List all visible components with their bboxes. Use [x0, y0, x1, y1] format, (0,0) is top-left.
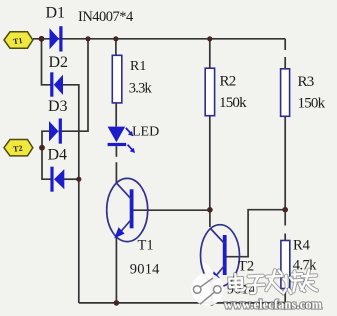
wire minus column down [78, 179, 80, 303]
wire R1 top lead [115, 39, 117, 56]
wire R4 bottom lead [284, 289, 286, 303]
wire T1-node vertical to D2 [42, 39, 51, 85]
svg-text:D1: D1 [46, 5, 66, 22]
svg-text:R4: R4 [293, 238, 311, 254]
svg-text:IN4007*4: IN4007*4 [78, 9, 134, 25]
svg-text:T2: T2 [238, 259, 254, 275]
junction node T2 emitter on rail [209, 300, 215, 306]
junction node T1 terminal [39, 36, 45, 42]
junction node bridge minus [76, 177, 81, 182]
svg-text:R1: R1 [130, 59, 146, 74]
junction node T1 emitter on rail [114, 300, 120, 306]
transistor T2 emitter arrow [209, 271, 219, 282]
svg-text:LED: LED [132, 125, 159, 140]
diode D2 [50, 72, 53, 96]
terminal T2 [4, 140, 33, 156]
wire T2 collector lead [209, 210, 211, 227]
svg-text:R3: R3 [298, 74, 314, 90]
watermark logo circle [191, 262, 223, 306]
svg-text:T1: T1 [13, 36, 24, 46]
diode D4 [50, 167, 53, 192]
LED arrow 2 [128, 145, 134, 151]
wire node B to T2 base [227, 210, 286, 257]
transistor T2 base bar [223, 235, 227, 275]
transistor T1 ellipse [107, 178, 148, 241]
junction node R1 top [113, 36, 118, 41]
wire R2 bottom lead [209, 116, 211, 210]
diode D1 [50, 28, 60, 49]
resistor R4 [281, 241, 290, 289]
svg-text:9014: 9014 [130, 262, 160, 278]
wire top rail [33, 38, 285, 40]
wire T2 emitter lead [211, 281, 213, 303]
svg-text:T2: T2 [13, 144, 24, 154]
wire R2 top lead [209, 39, 211, 68]
LED [108, 127, 126, 143]
wire T1 base to node A [133, 209, 210, 211]
transistor T2 collector diagonal [210, 228, 225, 244]
transistor T2 ellipse [201, 225, 240, 287]
svg-text:R2: R2 [220, 74, 236, 90]
svg-text:T1: T1 [138, 238, 154, 254]
watermark hanzi dian [229, 268, 317, 295]
wire R4 top lead [284, 210, 286, 241]
wire D4 anode to minus node [64, 178, 79, 180]
wire bottom rail [79, 302, 285, 304]
svg-text:www.elecfans.com: www.elecfans.com [224, 298, 322, 312]
junction node D3 cathode rail [85, 36, 90, 41]
diode D3 [49, 121, 58, 142]
transistor T1 collector diagonal [117, 183, 132, 199]
resistor R2 [205, 68, 214, 116]
wire R3 bottom lead [284, 116, 286, 209]
wire LED cathode to T1 collector [115, 146, 117, 183]
wire D3 cathode to top rail [58, 39, 88, 131]
transistor T2 emitter diagonal [213, 266, 225, 280]
wire T1 emitter lead [115, 237, 117, 303]
junction node T2 terminal [39, 145, 45, 151]
svg-text:D4: D4 [48, 147, 68, 164]
transistor T1 base bar [130, 189, 134, 228]
wire D2 anode to minus column [62, 85, 78, 179]
wire R1 bottom to LED anode [115, 103, 117, 127]
junction node R2 top [207, 36, 212, 41]
svg-text:150k: 150k [219, 95, 247, 111]
terminal T1 [4, 32, 33, 48]
transistor T1 emitter arrow [114, 227, 124, 238]
svg-text:D3: D3 [48, 98, 68, 115]
resistor R1 [112, 55, 122, 103]
svg-text:D2: D2 [49, 54, 69, 71]
wire R3 top lead [284, 39, 286, 69]
wire T2-node vertical D3 to D4 [42, 131, 51, 179]
resistor R3 [281, 69, 290, 117]
junction node B R3/R4/T2base [282, 207, 288, 213]
svg-text:3.3k: 3.3k [129, 81, 153, 97]
svg-text:150k: 150k [298, 96, 326, 112]
junction node A R2/T1base/T2col [207, 207, 213, 213]
transistor T1 emitter diagonal [118, 219, 131, 234]
LED arrow 1 [126, 128, 135, 153]
